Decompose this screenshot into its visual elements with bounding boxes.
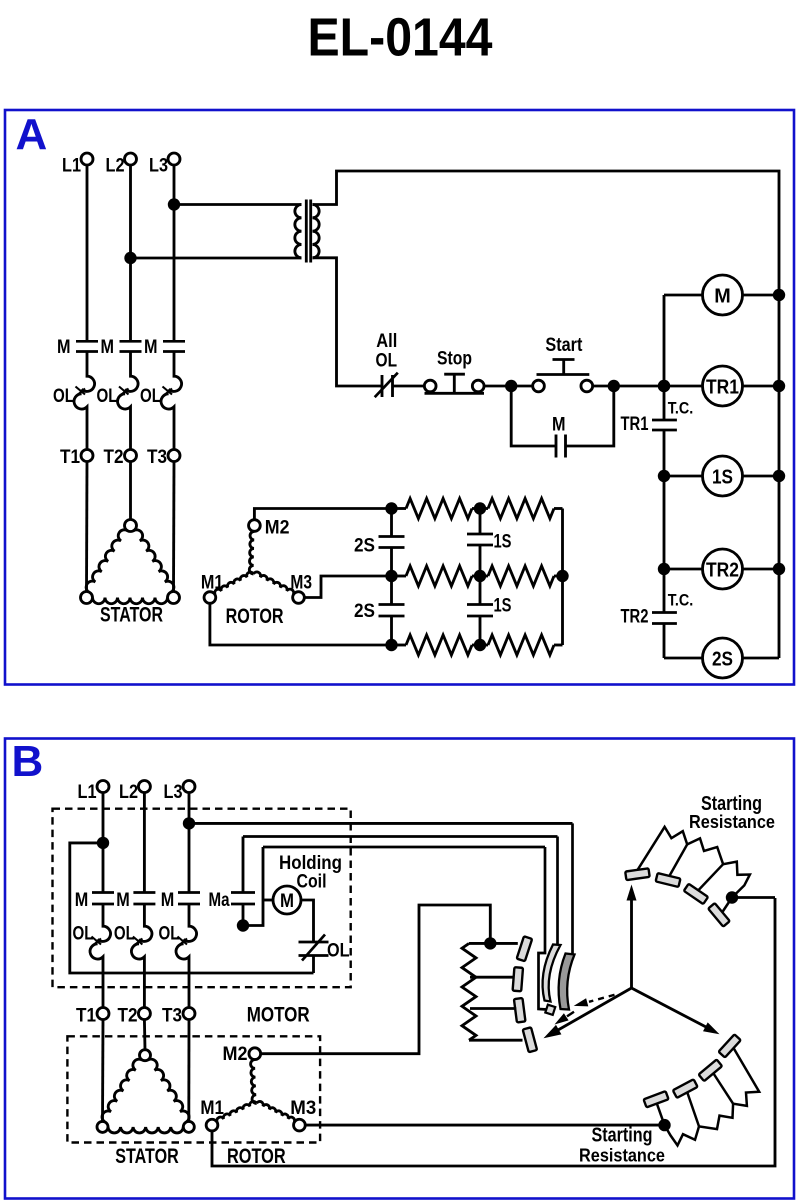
wire secondary bottom to control line: [313, 258, 383, 386]
drum wire line2 down: [556, 837, 559, 946]
contact M seal plates: [555, 435, 558, 458]
wire L2 phase B: [143, 793, 146, 893]
svg-text:OL: OL: [53, 385, 74, 407]
arrowhead movement 1: [574, 998, 589, 1006]
tap TR seg2: [670, 844, 688, 875]
contact 1S lower plates: [467, 603, 493, 606]
resistor element left bank: [462, 943, 476, 1040]
wire coil 1S to right rail: [743, 475, 780, 478]
drum arm right: [632, 988, 707, 1027]
rotor winding M2 leg B: [251, 1060, 257, 1104]
wire to coil TR1 left: [664, 385, 703, 388]
svg-text:M: M: [101, 336, 115, 358]
rotor terminal M3 B: [294, 1119, 306, 1131]
node right rail 1S: [773, 470, 785, 482]
contact 2S lower plates: [379, 603, 405, 606]
svg-text:M: M: [116, 889, 130, 911]
resistor grid bottom right: [488, 635, 554, 655]
svg-text:M: M: [144, 336, 158, 358]
node L3 tap: [168, 198, 180, 210]
svg-text:T3: T3: [162, 1005, 182, 1027]
node grid junction: [474, 502, 486, 514]
wire coil 2S to right rail: [743, 657, 780, 660]
stator vertex bottom-left: [81, 592, 93, 604]
wire L2 to transformer: [131, 257, 302, 260]
contact Stop terminal left: [424, 380, 436, 392]
svg-text:OL: OL: [140, 385, 161, 407]
svg-text:M1: M1: [200, 1097, 224, 1119]
wire 2S column a: [390, 509, 393, 537]
node right rail TR1: [773, 380, 785, 392]
svg-text:L3: L3: [149, 155, 168, 177]
wire 1S column a: [479, 509, 482, 535]
wire left rail middle: [663, 430, 666, 613]
svg-text:M: M: [75, 889, 89, 911]
resistor grid top left: [406, 499, 472, 519]
node L3 tap B: [183, 817, 195, 829]
wire grid bottom rail left stub: [392, 644, 407, 647]
wire grid middle rail mid stub: [472, 575, 488, 578]
stator winding right B: [148, 1059, 189, 1122]
svg-text:M2: M2: [265, 517, 290, 539]
contact Stop cap: [444, 373, 465, 376]
overload OL phase 3 B: [184, 925, 197, 941]
tap BR seg2: [714, 1074, 734, 1104]
tap wire L1 seg: [490, 942, 518, 945]
svg-text:L1: L1: [78, 781, 97, 803]
panel B frame: [5, 739, 794, 1199]
wire M1 to top-right resistance: [212, 898, 775, 1166]
contact OL coil plates: [299, 941, 329, 944]
rotor terminal M2: [249, 520, 261, 532]
node grid right junction: [556, 570, 568, 582]
drum arm up: [630, 898, 633, 988]
drum arm left wiper: [557, 988, 632, 1031]
overload OL phase 2 B: [139, 925, 152, 941]
svg-text:T2: T2: [104, 446, 124, 468]
svg-text:M: M: [714, 284, 731, 307]
svg-text:T3: T3: [147, 446, 167, 468]
wire T2 to stator: [129, 462, 132, 520]
node right rail TR2: [773, 563, 785, 575]
wire holding coil to OL: [301, 900, 314, 942]
svg-text:ROTOR: ROTOR: [227, 1145, 286, 1168]
wire T2 to stator B: [143, 1020, 146, 1050]
rotor winding M1 leg: [215, 572, 254, 594]
node grid junction: [474, 570, 486, 582]
wire L3 phase: [173, 165, 176, 341]
segment L2: [514, 998, 526, 1022]
tap wire L3 seg: [470, 1007, 516, 1010]
transformer core line 2: [309, 200, 312, 263]
contact Stop terminal right: [472, 380, 484, 392]
wire to coil M left: [664, 294, 703, 297]
movement solid tail: [567, 1012, 574, 1017]
svg-text:2S: 2S: [354, 535, 375, 557]
transformer primary coil: [295, 205, 302, 258]
resistor grid top right: [488, 499, 554, 519]
node grid junction: [385, 639, 397, 651]
relay coil TR2: [703, 549, 743, 589]
terminal L2 B: [138, 781, 150, 793]
svg-text:1S: 1S: [494, 595, 512, 617]
overload OL phase 1: [82, 375, 95, 391]
svg-text:OL: OL: [97, 385, 118, 407]
moving contact arc outer: [543, 945, 561, 1002]
segment L3: [513, 967, 523, 991]
stator winding bottom B: [108, 1127, 183, 1133]
node left rail TR2: [658, 563, 670, 575]
node Ma junction: [237, 919, 249, 931]
wire to coil 1S left: [664, 475, 703, 478]
wire L3 to transformer: [174, 203, 302, 206]
wire 2S column b: [390, 548, 393, 605]
wire grid bottom rail right stub: [554, 644, 563, 647]
svg-text:OL: OL: [159, 923, 180, 945]
contact Start cap: [553, 358, 575, 361]
moving contact square: [545, 1005, 555, 1015]
terminal L1: [81, 153, 93, 165]
svg-text:2S: 2S: [354, 600, 375, 622]
relay coil 1S: [703, 456, 743, 496]
wire T1 to stator B: [101, 1020, 104, 1122]
rotor terminal M2 B: [249, 1048, 261, 1060]
tap BR seg3: [687, 1093, 699, 1127]
terminal T1 B: [97, 1008, 109, 1020]
drum wire line1 down: [571, 823, 574, 953]
svg-text:Start: Start: [545, 334, 582, 356]
wire Ma junction up: [243, 847, 263, 926]
svg-text:T1: T1: [76, 1005, 96, 1027]
holding coil M: [273, 886, 301, 914]
wire grid top rail mid stub: [472, 507, 488, 510]
wire M1 to grid: [210, 603, 392, 645]
contact TR1 T.C. plates: [652, 419, 677, 422]
wire left rail lower: [663, 624, 666, 659]
stator winding right side: [134, 530, 174, 592]
wire seal branch left: [511, 386, 556, 446]
terminal T2 B: [138, 1008, 150, 1020]
svg-text:M: M: [57, 336, 71, 358]
segment TR3: [684, 884, 708, 904]
svg-text:L2: L2: [106, 155, 125, 177]
svg-text:T.C.: T.C.: [668, 591, 694, 610]
svg-text:TR1: TR1: [706, 375, 739, 398]
relay coil M: [703, 275, 743, 315]
arrowhead arm up: [627, 885, 637, 901]
wire M to OL phase 1: [86, 352, 89, 376]
svg-text:Ma: Ma: [209, 889, 230, 911]
wire OL to T phase 1 B: [102, 958, 105, 1008]
wire OL to T phase 1: [86, 408, 89, 450]
tap wire zig top: [469, 942, 490, 945]
contact 1S upper plates: [467, 533, 493, 536]
terminal L3: [168, 153, 180, 165]
terminal T3 B: [183, 1008, 195, 1020]
contact All OL slash: [375, 373, 398, 398]
segment BR2: [699, 1060, 723, 1082]
stator winding left B: [102, 1059, 142, 1122]
svg-text:Resistance: Resistance: [579, 1145, 665, 1166]
tap TR seg3: [698, 864, 723, 890]
wire T3 to stator B: [187, 1020, 190, 1122]
terminal T2: [125, 450, 137, 462]
node BR resistance: [658, 1119, 670, 1131]
wire top-right resistance to rail: [732, 896, 775, 899]
wire L1 branch to OL return: [70, 843, 314, 973]
svg-text:Stop: Stop: [437, 348, 472, 370]
wire M to OL phase 3: [173, 352, 176, 376]
rotor terminal M1: [204, 592, 216, 604]
svg-text:L1: L1: [62, 155, 81, 177]
resistor grid bottom left: [406, 635, 472, 655]
stator rotor dashed enclosure: [67, 1036, 320, 1142]
wire grid middle rail right stub: [554, 575, 563, 578]
wire to coil TR2 left: [664, 568, 703, 571]
svg-text:1S: 1S: [494, 531, 512, 553]
terminal T1: [81, 450, 93, 462]
svg-text:Coil: Coil: [297, 871, 327, 893]
wire grid right rail: [561, 509, 564, 646]
node L1 tap B: [97, 837, 109, 849]
node TR resistance: [726, 891, 738, 903]
wire coil TR1 to right rail: [743, 385, 780, 388]
svg-text:M: M: [161, 889, 175, 911]
wire OL to return: [312, 956, 315, 974]
stub TR seg4 to node: [722, 898, 732, 913]
svg-text:OL: OL: [73, 923, 94, 945]
node left resistance: [484, 937, 496, 949]
wire M to OL phase 3 B: [188, 904, 191, 925]
node seal right: [608, 380, 620, 392]
svg-text:EL-0144: EL-0144: [308, 8, 493, 68]
stator vertex bottom-right: [168, 592, 180, 604]
wire Start to rail: [593, 385, 664, 388]
wire grid middle rail left stub: [392, 575, 407, 578]
resistor grid middle left: [406, 566, 472, 586]
svg-text:M: M: [552, 414, 566, 436]
wire M to OL phase 2: [129, 352, 132, 376]
wire left rail upper: [663, 295, 666, 420]
wire L3 to drum (line1): [189, 822, 573, 825]
wire OL to T phase 3: [173, 408, 176, 450]
contact Stop bar: [425, 392, 485, 395]
wire M3 to grid: [304, 576, 391, 598]
contact Start bar: [537, 373, 590, 376]
wire M to OL phase 1 B: [102, 904, 105, 925]
contact M phase 3 B plates: [178, 891, 200, 894]
moving contact arc inner: [559, 954, 575, 1010]
contact M phase 2 plates: [120, 340, 142, 343]
relay coil TR1: [703, 366, 743, 406]
wire T1 to stator: [85, 462, 88, 592]
contact M phase 1 plates: [76, 340, 98, 343]
contact M phase 1 B plates: [92, 891, 114, 894]
transformer core line 1: [305, 200, 308, 263]
wire OL to T phase 2 B: [143, 958, 146, 1008]
resistor chain BR: [665, 1048, 760, 1145]
svg-text:2S: 2S: [712, 647, 733, 670]
segment TR2: [656, 873, 681, 887]
wire 1S column c: [479, 616, 482, 645]
svg-text:TR1: TR1: [621, 414, 649, 435]
contact M phase 2 B plates: [133, 891, 155, 894]
wire grid top rail left stub: [392, 507, 407, 510]
svg-text:B: B: [12, 737, 44, 786]
wire M to OL phase 2 B: [143, 904, 146, 925]
node grid junction: [385, 570, 397, 582]
wire 2S column c: [390, 616, 393, 645]
wire secondary top to right rail: [313, 171, 780, 658]
arrowhead arm right: [703, 1022, 720, 1034]
contact M phase 3 plates: [163, 340, 185, 343]
transformer secondary coil: [313, 205, 320, 258]
svg-text:M3: M3: [290, 1097, 316, 1119]
stator vertex top B: [140, 1050, 151, 1061]
wire 1S column b: [479, 545, 482, 605]
contact Ma plates: [231, 891, 255, 894]
terminal T3: [168, 450, 180, 462]
svg-text:L2: L2: [119, 781, 138, 803]
svg-text:Starting: Starting: [592, 1125, 653, 1147]
svg-text:T2: T2: [118, 1005, 138, 1027]
panel A frame: [5, 110, 794, 685]
wire L2 phase: [129, 165, 132, 341]
arrowhead wiper: [544, 1025, 562, 1038]
resistor chain TR: [638, 827, 750, 898]
wire Ma bottom: [242, 904, 245, 926]
svg-text:TR2: TR2: [621, 607, 649, 628]
wire to holding coil: [263, 899, 273, 902]
stator winding left side: [86, 530, 127, 593]
svg-text:M: M: [280, 890, 294, 912]
svg-text:TR2: TR2: [706, 558, 739, 581]
svg-text:OL: OL: [376, 350, 398, 372]
svg-text:T1: T1: [60, 446, 80, 468]
svg-text:STATOR: STATOR: [115, 1145, 179, 1168]
wire L1 phase B: [102, 793, 105, 893]
tap wire L4 seg: [469, 1039, 523, 1042]
resistor grid middle right: [488, 566, 554, 586]
contact 2S upper plates: [379, 535, 405, 538]
svg-text:A: A: [16, 110, 48, 159]
node seal left: [505, 380, 517, 392]
svg-text:L3: L3: [164, 781, 183, 803]
svg-text:OL: OL: [114, 923, 135, 945]
wire grid bottom rail mid stub: [472, 644, 488, 647]
contact Start terminal left: [533, 380, 545, 392]
motor dashed enclosure: [53, 809, 351, 988]
wire L3 phase B: [188, 793, 191, 893]
terminal L2: [125, 153, 137, 165]
wire coil M to right rail: [743, 294, 780, 297]
node grid junction: [474, 639, 486, 651]
terminal L3 B: [183, 781, 195, 793]
contact Start stem: [562, 360, 565, 375]
stator vertex BR B: [183, 1121, 194, 1132]
svg-text:M1: M1: [201, 572, 224, 594]
wire Ma to drum (line2): [243, 835, 558, 838]
wire L1 phase: [86, 165, 89, 341]
rotor terminal M3: [293, 592, 305, 604]
stub BR seg4 to node: [657, 1104, 665, 1125]
rotor winding M1 leg B: [217, 1101, 257, 1122]
wire M3 to bottom-right resistance: [305, 1124, 664, 1127]
stator vertex BL B: [97, 1121, 108, 1132]
svg-text:ROTOR: ROTOR: [226, 605, 284, 628]
rotor winding M3 leg B: [257, 1101, 295, 1122]
overload OL phase 1 B: [98, 925, 111, 941]
wire grid top rail right stub: [554, 507, 563, 510]
overload OL phase 3: [169, 375, 182, 391]
arrowhead movement 2: [555, 1013, 569, 1024]
contact Stop stem: [453, 374, 456, 393]
segment L4: [517, 936, 532, 961]
tap wire L2 seg: [470, 976, 514, 979]
svg-text:1S: 1S: [712, 465, 733, 488]
segment BR1: [719, 1034, 741, 1057]
movement dashed line: [589, 995, 615, 1002]
stator winding bottom side: [93, 598, 168, 604]
rotor winding M2 leg: [249, 531, 254, 574]
svg-text:STATOR: STATOR: [100, 604, 163, 627]
node left rail 1S: [658, 470, 670, 482]
svg-text:M3: M3: [290, 572, 312, 594]
svg-text:T.C.: T.C.: [668, 398, 694, 417]
svg-text:Resistance: Resistance: [689, 811, 775, 832]
wire to coil 2S left: [664, 657, 703, 660]
segment TR4: [708, 903, 730, 927]
wire M2 to left resistance: [261, 905, 491, 1054]
contact TR2 T.C. plates: [652, 611, 677, 614]
segment L1: [523, 1027, 537, 1052]
wire coil TR2 to right rail: [743, 568, 780, 571]
overload OL phase 2: [125, 375, 138, 391]
node right rail M: [773, 289, 785, 301]
wire OL to T phase 3 B: [188, 958, 191, 1008]
contact OL coil slash: [302, 935, 325, 961]
svg-text:MOTOR: MOTOR: [247, 1004, 310, 1027]
wire AllOL to Stop: [393, 385, 425, 388]
svg-text:M2: M2: [223, 1043, 248, 1065]
node control to rail: [658, 380, 670, 392]
terminal L1 B: [97, 781, 109, 793]
segment TR1: [625, 868, 649, 880]
wire M2 to grid: [254, 509, 391, 520]
svg-text:OL: OL: [327, 940, 350, 962]
node L2 tap: [124, 252, 136, 264]
wire Ma top: [242, 837, 245, 893]
contact Start terminal right: [581, 380, 593, 392]
wire Stop to Start: [484, 385, 532, 388]
wire coil to drum (line3): [263, 846, 545, 849]
node left rail TR1: [658, 380, 670, 392]
wire OL to T phase 2: [129, 408, 132, 450]
drum wire line3 down: [539, 847, 547, 1010]
stator vertex top: [125, 520, 137, 532]
wire seal branch right: [566, 386, 614, 446]
relay coil 2S: [703, 638, 743, 678]
wire T3 to stator: [172, 462, 175, 592]
segment BR3: [673, 1079, 698, 1098]
node grid junction: [385, 502, 397, 514]
rotor winding M3 leg: [254, 572, 294, 595]
rotor terminal M1 B: [206, 1119, 218, 1131]
segment BR4: [644, 1091, 669, 1107]
